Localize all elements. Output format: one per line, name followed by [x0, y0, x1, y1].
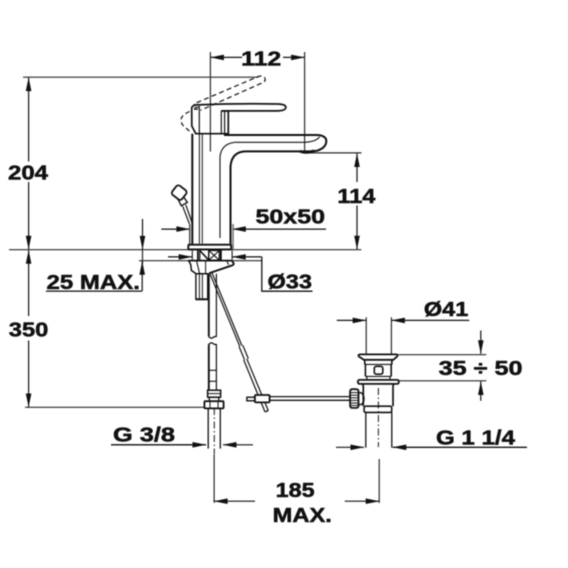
svg-text:Ø41: Ø41: [424, 299, 468, 321]
handle block inner lines: [198, 106, 200, 134]
raised handle (dashed) tip arc: [257, 76, 266, 83]
raised handle (dashed) upper line: [197, 77, 257, 103]
pop-up rod lower diagonal: [244, 360, 265, 412]
svg-text:35 ÷ 50: 35 ÷ 50: [439, 358, 523, 380]
svg-text:MAX.: MAX.: [273, 505, 332, 527]
label G 1 1/4 : leader arrow and underline: [393, 446, 527, 448]
svg-text:50x50: 50x50: [256, 207, 326, 229]
spout inner corner curve into body: [220, 142, 235, 238]
drain body top line: [365, 363, 391, 365]
dimension 185 MAX : arrows: [214, 500, 255, 502]
label 50x50 : left arrow: [161, 228, 190, 230]
label D33 : arrows at faucet shank: [168, 256, 192, 258]
svg-text:350: 350: [9, 320, 49, 342]
deck hole tick left: [191, 250, 193, 259]
svg-text:112: 112: [241, 48, 281, 70]
dimension 112 : left extension line: [209, 52, 211, 152]
faucet handle block: [192, 105, 229, 134]
label D33 : leader elbow and underline: [262, 257, 313, 291]
drain lock band: [364, 406, 392, 412]
50x50 section marker right tick: [232, 224, 234, 249]
dimension 35-50 : top extension line: [398, 354, 487, 356]
dimension 350 : vertical dimension line with arrows: [28, 250, 30, 316]
lift rod: [183, 206, 190, 224]
pop-up rod joint sleeve: [239, 346, 245, 359]
svg-text:185: 185: [276, 480, 315, 502]
raised handle (dashed) lower line: [201, 83, 262, 110]
connection hex nut: [204, 401, 223, 408]
dimension 204 : top extension line: [23, 76, 259, 78]
drain centerline: [377, 388, 379, 447]
supply hose lower section: [208, 345, 210, 391]
dimension 185 MAX : left extension line: [213, 454, 215, 502]
label G 3/8 : underline leader with arrow: [111, 444, 206, 446]
hose break lower curve: [209, 336, 217, 338]
deck mounting surface line: [9, 249, 361, 251]
knurl ridges: [350, 393, 358, 406]
shank right bold line: [220, 250, 222, 260]
dimension 25 MAX : down arrow line at deck: [142, 219, 144, 249]
dimension 204 : vertical dimension line with arrows: [28, 78, 30, 162]
linkage clamp block: [255, 395, 270, 402]
nut cap piece: [359, 393, 365, 405]
drain body bottom line: [365, 375, 391, 377]
deck bottom line (25 MAX limit): [139, 260, 263, 262]
dimension 112 : right extension line: [304, 52, 306, 151]
lift knob neck: [178, 197, 187, 205]
linkage left stub: [247, 397, 255, 401]
label 50x50 : leader with arrow and underline: [232, 228, 326, 230]
drain upper tube: [362, 384, 365, 406]
mounting bracket wedge: [209, 261, 233, 274]
pop-up lift knob: [171, 184, 188, 201]
dimension 112 : dimension line with outward arrows: [210, 56, 242, 58]
dimension D41 : dimension line with inward arrows: [337, 319, 366, 321]
faucet base flange: [188, 245, 231, 250]
drain lower tube: [365, 412, 367, 447]
G3/8 threaded tail tube: [207, 408, 209, 448]
svg-text:114: 114: [337, 186, 376, 208]
drain step: [366, 376, 368, 379]
drain disc flange: [358, 380, 399, 384]
faucet body left outer edge: [191, 134, 193, 244]
drain body square hole: [374, 366, 383, 374]
shank threaded box with cross: [209, 251, 220, 261]
drain flange top: [358, 354, 397, 359]
horizontal linkage rod: [270, 396, 351, 398]
shank diagonal: [200, 251, 209, 261]
shank left bold lines: [197, 250, 199, 260]
mounting bracket top edge: [188, 260, 232, 262]
spout inner highlight line: [235, 137, 320, 143]
dimension 350 : bottom extension line: [25, 406, 204, 408]
pop-up rod end cap: [265, 411, 268, 412]
svg-text:Ø33: Ø33: [268, 272, 313, 294]
label G 3/8 : right arrow: [223, 444, 253, 446]
hose break upper curve: [209, 343, 217, 345]
50x50 section marker left tick: [189, 224, 191, 245]
dimension 35-50 : bottom extension line: [399, 380, 487, 382]
dimension 25 MAX : up arrow from label: [141, 261, 143, 291]
svg-text:204: 204: [8, 163, 49, 185]
faucet body and spout outer edge: [224, 135, 326, 244]
body inner shading lines: [198, 135, 200, 244]
mounting bracket left side: [189, 261, 209, 274]
pop-up rod upper diagonal: [210, 273, 240, 346]
label G 1 1/4 : left arrow: [336, 446, 364, 448]
deck hole tick right: [231, 250, 233, 259]
dimension 35-50 : outside arrows: [480, 331, 482, 354]
hose end ferrule: [208, 390, 221, 397]
dimension 114 : vertical dimension line with arrows: [356, 154, 358, 183]
spout aerator arc: [300, 151, 314, 153]
tail tube centerline: [213, 408, 215, 454]
hose joint lines: [209, 369, 217, 371]
dimension 114 : top extension line: [310, 152, 361, 154]
supply hose upper section: [208, 274, 210, 337]
svg-text:G 1 1/4: G 1 1/4: [436, 427, 516, 449]
dimension 185 MAX : right extension line: [378, 459, 380, 503]
svg-text:G 3/8: G 3/8: [113, 424, 175, 446]
knurled adjusting nut: [350, 389, 358, 408]
handle top curl mark: [195, 107, 199, 109]
raised handle (dashed) rear arc: [181, 112, 190, 134]
drain neck left: [364, 360, 365, 377]
threaded stud block: [196, 274, 208, 300]
bracket inner diagonals: [197, 261, 200, 274]
drain neck right: [391, 360, 392, 377]
dimension D41 : extension lines: [365, 317, 367, 354]
faucet handle lever (solid): [194, 104, 286, 111]
